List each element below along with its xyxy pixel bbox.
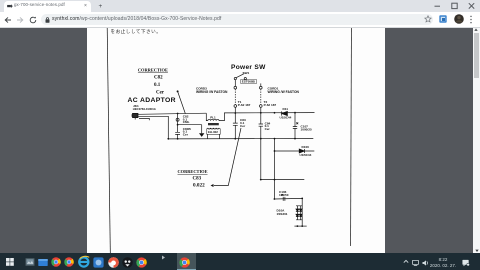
capacitor C80B xyxy=(175,124,180,138)
junction C106 line right xyxy=(301,197,303,199)
wire: vertical to D100 branch xyxy=(274,138,276,179)
junction D100 branch top xyxy=(274,111,276,113)
wire: CORD1 cable dashed xyxy=(260,89,262,105)
svg-text:EH-302: EH-302 xyxy=(208,129,218,133)
svg-text:PL1: PL1 xyxy=(210,115,216,119)
wire: T2 stub xyxy=(260,83,262,86)
junction T2 rail xyxy=(260,111,262,113)
active app button xyxy=(177,253,197,270)
task icon: dark app xyxy=(122,257,133,268)
star xyxy=(424,15,432,23)
junction bottom stub xyxy=(297,225,299,227)
task icon: viewer xyxy=(25,257,35,267)
leader line to C82 xyxy=(178,91,186,113)
svg-text:WIRING /W FASTON: WIRING /W FASTON xyxy=(268,89,300,93)
task icon: app blue xyxy=(93,257,104,268)
svg-text:U1BC44: U1BC44 xyxy=(300,152,312,156)
transformer EH-302 box xyxy=(207,128,220,134)
menu dots xyxy=(469,15,473,24)
wire: transformer to right jog xyxy=(219,112,235,120)
overflow chevron xyxy=(161,255,166,260)
svg-text:0.1: 0.1 xyxy=(154,83,161,88)
forward arrow xyxy=(16,16,24,24)
wire: mid line to ground xyxy=(178,123,202,125)
switch SW1 pole terminal xyxy=(234,77,236,79)
label EST008B box xyxy=(241,79,257,83)
junction lower bus left xyxy=(260,178,262,180)
wire: D100 branch line xyxy=(275,150,315,152)
junction D100 vertical bottom rail xyxy=(274,137,276,139)
scrollbar up arrow xyxy=(474,28,478,31)
svg-text:100/50: 100/50 xyxy=(279,193,289,197)
junction lower bus mid xyxy=(274,178,276,180)
reload xyxy=(29,16,37,24)
wire: transformer box stubs to bottom rail xyxy=(208,134,220,139)
wire: T1 stub from switch xyxy=(234,79,236,86)
wire: T1 lead to rail xyxy=(234,107,236,113)
tray network xyxy=(412,260,419,266)
svg-text:P-62 187: P-62 187 xyxy=(238,103,251,107)
avatar xyxy=(454,14,464,24)
svg-text:をお止しして下さい。: をお止しして下さい。 xyxy=(111,28,162,35)
task icon: chrome 1 xyxy=(51,257,61,267)
tray speaker xyxy=(422,260,429,266)
capacitor C106 xyxy=(282,194,285,201)
diode D100 xyxy=(299,149,304,153)
wire: CORD3 cable dashed xyxy=(234,89,236,105)
tray action center xyxy=(462,259,470,267)
svg-text:SW1: SW1 xyxy=(243,71,250,75)
junction T1 rail xyxy=(234,112,236,114)
terminal faston CORD3 upper xyxy=(234,86,237,89)
junction bottom rail left xyxy=(167,137,169,139)
windows start xyxy=(6,258,14,266)
junction C84 bottom rail xyxy=(260,137,262,139)
svg-text:CORRECTIOE: CORRECTIOE xyxy=(178,169,208,174)
ground stem xyxy=(201,124,203,133)
wire: drop to C106 line xyxy=(273,179,275,198)
task icon: opera xyxy=(108,257,119,268)
svg-text:HEC0784-01001G: HEC0784-01001G xyxy=(133,106,156,110)
capacitor C107 xyxy=(293,112,298,138)
svg-text:1000/25: 1000/25 xyxy=(301,127,312,131)
wire: T2 lead crossing to C84 xyxy=(260,107,262,124)
svg-text:Power SW: Power SW xyxy=(231,63,266,70)
svg-text:WIRING /W FASTON: WIRING /W FASTON xyxy=(196,89,228,93)
frame right border xyxy=(350,28,353,246)
transformer PL1 jog left xyxy=(206,113,208,120)
switch SW1 lever xyxy=(236,73,244,77)
junction C80B bottom xyxy=(177,137,179,139)
wire: drop to bridge xyxy=(301,198,303,226)
svg-text:C83: C83 xyxy=(193,176,202,181)
task icon: chrome 3 xyxy=(136,257,147,268)
capacitor C83 xyxy=(233,112,238,138)
capacitor C82 (circle symbol) xyxy=(177,113,179,124)
window controls xyxy=(430,0,480,12)
switch SW1 throw terminal xyxy=(244,77,246,79)
leader arrow dot C82 xyxy=(177,90,179,92)
svg-text:Cer: Cer xyxy=(265,127,271,131)
terminal T1 faston xyxy=(234,104,237,107)
leader line to C83 xyxy=(214,128,241,186)
lock xyxy=(45,17,50,23)
svg-text:Cer: Cer xyxy=(240,123,246,127)
junction C82/C80B mid node xyxy=(177,123,179,125)
ground symbol xyxy=(199,133,204,137)
wire: bottom stub xyxy=(294,225,306,227)
junction C82 top rail xyxy=(177,112,179,114)
svg-text:Cer: Cer xyxy=(156,90,165,95)
frame left border xyxy=(107,28,110,253)
wire: jack pin2 to bottom rail xyxy=(138,116,168,139)
task icon: IE xyxy=(78,255,90,268)
wire: top rail right section xyxy=(235,111,314,113)
task icon: explorer xyxy=(38,258,48,267)
transformer PL1 core xyxy=(208,123,219,124)
svg-text:Cer: Cer xyxy=(183,132,189,136)
diode bridge D10A branch A xyxy=(296,205,298,219)
svg-text:0.022: 0.022 xyxy=(193,182,205,188)
task icon: chrome 2 xyxy=(64,257,74,267)
junction bridge bottom xyxy=(301,225,303,227)
svg-text:CORRECTIOE: CORRECTIOE xyxy=(138,67,168,72)
svg-text:EST008B: EST008B xyxy=(242,79,256,83)
leader arrow head C83 xyxy=(211,184,214,187)
terminal faston CORD1 upper xyxy=(260,86,263,89)
wire: bottom rail xyxy=(168,137,313,139)
junction C83 bottom xyxy=(234,137,236,139)
diode bridge D10A branch B xyxy=(300,205,302,219)
svg-text:U1BC44: U1BC44 xyxy=(280,115,292,119)
scrollbar down arrow xyxy=(475,249,479,252)
terminal T2 faston xyxy=(260,104,263,107)
junction C107 bottom xyxy=(294,137,296,139)
transformer PL1 winding bottom xyxy=(208,127,219,128)
tray chevron xyxy=(403,259,409,264)
svg-text:P-62 187: P-62 187 xyxy=(264,103,277,107)
capacitor C84 xyxy=(259,124,263,180)
back arrow xyxy=(4,16,12,24)
svg-text:C82: C82 xyxy=(154,75,163,80)
diode D11 xyxy=(282,111,288,115)
transformer PL1 winding top xyxy=(208,119,219,120)
junction D100 branch xyxy=(274,150,276,152)
junction C107 top xyxy=(294,111,296,113)
svg-text:D100: D100 xyxy=(302,145,310,149)
diode bridge D10A top and bottom links xyxy=(296,205,302,219)
svg-text:1SS301: 1SS301 xyxy=(277,211,288,215)
wire: lower bus xyxy=(261,178,305,180)
extension icon xyxy=(439,15,447,23)
junction C106 line left xyxy=(274,198,276,200)
connector JK1 xyxy=(133,113,139,117)
svg-text:CML: CML xyxy=(183,120,190,124)
wire: C106 line xyxy=(274,197,302,200)
svg-text:D11: D11 xyxy=(283,107,289,111)
wire: top rail from jack to transformer xyxy=(138,113,206,114)
